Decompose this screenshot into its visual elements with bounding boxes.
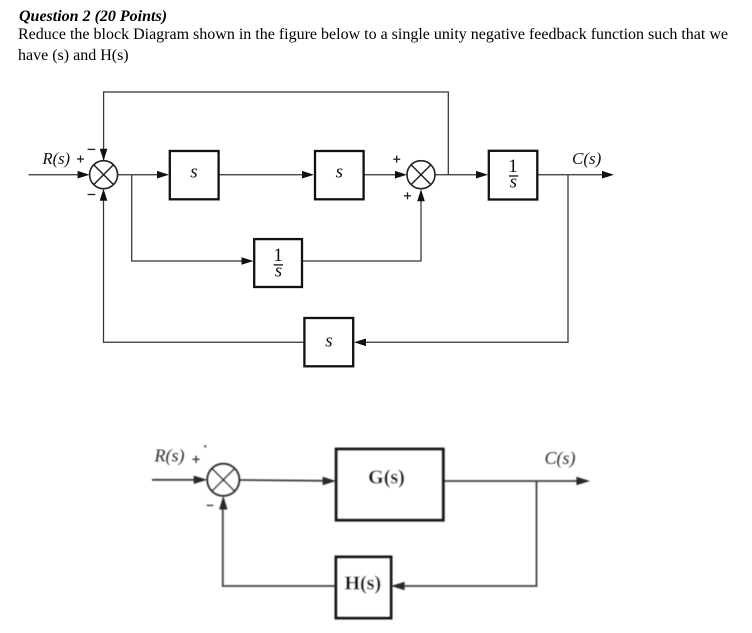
svg-text:H(s): H(s) — [344, 573, 381, 595]
svg-text:s: s — [336, 161, 343, 182]
svg-text:s: s — [325, 330, 332, 351]
svg-text:s: s — [190, 161, 197, 182]
svg-text:s: s — [510, 172, 517, 193]
svg-text:R(s): R(s) — [42, 149, 71, 168]
svg-text:s: s — [275, 261, 282, 282]
svg-text:C(s): C(s) — [545, 448, 576, 469]
svg-text:G(s): G(s) — [368, 467, 405, 489]
svg-text:C(s): C(s) — [572, 149, 602, 168]
svg-text:R(s): R(s) — [154, 446, 185, 467]
